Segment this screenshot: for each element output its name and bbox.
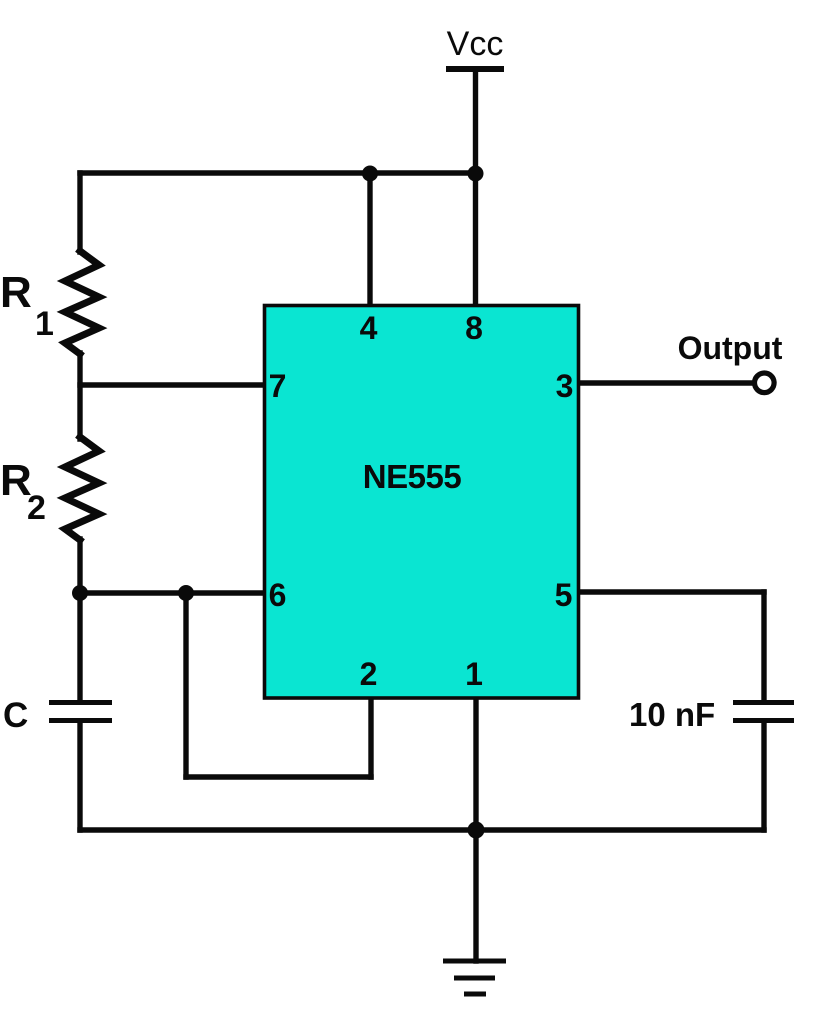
resistor R1 xyxy=(65,251,99,354)
wire pin 3 output xyxy=(577,380,753,385)
wire pin 6 horizontal xyxy=(80,590,266,595)
wire trigger branch vertical from node xyxy=(183,593,188,777)
wire capacitor 10nF to bottom rail xyxy=(761,723,766,830)
wire Vcc bar to top junction xyxy=(473,69,478,173)
wire pin 1 vertical xyxy=(473,698,478,830)
node junction top at pin 8 / Vcc xyxy=(468,166,484,182)
svg-text:4: 4 xyxy=(360,310,378,346)
wire R2 bottom to node xyxy=(77,539,82,593)
wire capacitor C to bottom rail xyxy=(77,723,82,830)
svg-text:NE555: NE555 xyxy=(363,458,462,495)
svg-text:8: 8 xyxy=(465,310,483,346)
wire pin 4 vertical xyxy=(367,173,372,306)
svg-text:C: C xyxy=(3,696,28,735)
svg-text:Output: Output xyxy=(678,330,783,366)
svg-text:7: 7 xyxy=(269,368,287,404)
node junction left rail pin 6 xyxy=(72,585,88,601)
capacitor 10nF xyxy=(733,703,794,721)
power rail Vcc bar xyxy=(446,66,504,72)
wire left rail top to R1 xyxy=(77,173,82,252)
wire top horizontal rail xyxy=(80,170,476,175)
svg-text:3: 3 xyxy=(556,368,574,404)
wire trigger branch horizontal xyxy=(186,774,371,779)
svg-text:1: 1 xyxy=(465,656,483,692)
svg-text:6: 6 xyxy=(269,577,287,613)
capacitor C xyxy=(49,703,112,721)
svg-text:1: 1 xyxy=(35,305,54,343)
node junction trigger branch xyxy=(178,585,194,601)
wire bottom horizontal rail xyxy=(80,827,764,832)
wire pin 5 horizontal xyxy=(577,589,764,594)
wire trigger branch up to pin 2 xyxy=(368,698,373,777)
node junction bottom rail ground xyxy=(468,822,485,839)
output terminal circle xyxy=(755,373,775,393)
wire pin 1 node to ground xyxy=(473,830,478,961)
IC U1 NE555 timer body xyxy=(265,306,579,699)
wire pin 5 to capacitor 10nF xyxy=(761,592,766,701)
resistor R2 xyxy=(65,437,99,540)
node junction top at pin 4 xyxy=(362,166,378,182)
wire R1 bottom to R2 top xyxy=(77,353,82,439)
svg-text:2: 2 xyxy=(360,656,378,692)
svg-text:Vcc: Vcc xyxy=(447,25,504,63)
svg-text:10 nF: 10 nF xyxy=(629,696,715,733)
wire pin 7 horizontal xyxy=(80,382,266,387)
wire left rail node to capacitor C xyxy=(77,593,82,701)
svg-text:R: R xyxy=(0,268,32,317)
svg-text:2: 2 xyxy=(27,489,46,527)
wire pin 8 vertical xyxy=(473,173,478,306)
svg-text:5: 5 xyxy=(555,577,573,613)
ground xyxy=(443,961,506,994)
